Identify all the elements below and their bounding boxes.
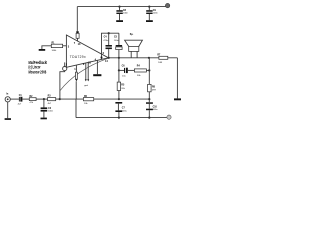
svg-text:100n: 100n	[114, 40, 120, 42]
wire supply riser to pin 7	[76, 7, 78, 32]
wire output right drop	[176, 58, 178, 99]
capacitor C4	[108, 33, 110, 45]
svg-text:Moscow 2006: Moscow 2006	[29, 69, 47, 74]
resistor R3	[48, 98, 56, 101]
wire pin2 to input node	[60, 71, 65, 99]
capacitor C6	[124, 68, 125, 73]
capacitor C3	[43, 99, 45, 107]
wire ground bus	[76, 117, 167, 119]
resistor R7	[159, 56, 168, 59]
wire bootstrap top	[102, 33, 119, 59]
pin 7 box of U1	[76, 31, 78, 33]
svg-text:Sp.: Sp.	[130, 34, 134, 36]
pin 2 bubble	[64, 62, 66, 66]
resistor R1	[39, 49, 46, 51]
wire pin1 to input row	[75, 81, 77, 99]
ground	[174, 98, 181, 100]
svg-text:100n: 100n	[123, 13, 129, 15]
wire mad feedback curve	[60, 58, 108, 91]
svg-text:C10: C10	[153, 107, 158, 109]
resistor R4b wire row bottom	[83, 98, 93, 101]
ground	[41, 118, 47, 120]
svg-text:100n: 100n	[48, 111, 54, 113]
ground	[146, 20, 153, 22]
resistor R5	[117, 82, 120, 90]
svg-text:100n: 100n	[153, 109, 159, 111]
node junction C3	[43, 98, 45, 100]
svg-text:100u: 100u	[122, 110, 128, 112]
wire top supply rail	[77, 6, 165, 8]
wire feedback row	[119, 69, 124, 71]
ground	[116, 20, 123, 22]
svg-text:100n: 100n	[153, 13, 159, 15]
op-amp U1 TDA729x	[66, 35, 108, 67]
resistor R4	[134, 69, 146, 72]
capacitor C9	[148, 6, 150, 8]
capacitor C10	[146, 102, 153, 104]
resistor R8	[148, 84, 152, 91]
resistor R2	[29, 98, 36, 101]
wire zobel column	[148, 58, 150, 85]
node V+ terminal	[165, 3, 169, 7]
wire ground bus drop	[75, 99, 77, 118]
svg-text:470u: 470u	[103, 40, 109, 42]
wire input ground drop	[7, 102, 9, 118]
capacitor C8	[118, 6, 120, 8]
ground	[93, 74, 101, 76]
pin 1 stub of U1	[75, 65, 77, 72]
ground	[5, 118, 11, 120]
capacitor C5	[118, 33, 120, 45]
svg-text:10R: 10R	[158, 62, 162, 64]
capacitor C1	[18, 97, 21, 102]
pin 9 stub arrow	[85, 63, 87, 79]
node output terminal	[167, 115, 171, 119]
pin 4 ground stub	[96, 61, 98, 75]
capacitor C7	[115, 102, 122, 104]
wire column mid	[118, 58, 120, 82]
pin 10 stub arrow	[87, 63, 89, 80]
svg-text:TDA729x: TDA729x	[70, 55, 86, 59]
node junction pin2	[59, 98, 61, 100]
wire output	[109, 57, 178, 59]
